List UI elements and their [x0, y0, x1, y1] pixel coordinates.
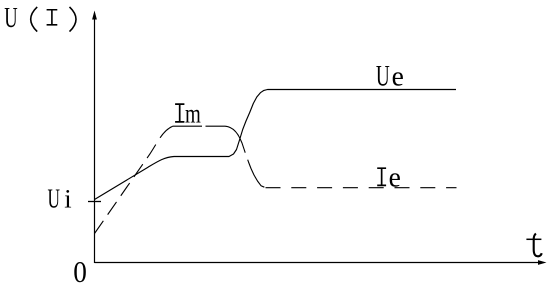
svg-text:U: U	[376, 60, 390, 92]
svg-text:e: e	[389, 162, 401, 194]
label U(I) : (	[31, 7, 38, 32]
label Im : I	[175, 104, 184, 122]
svg-text:m: m	[185, 99, 201, 130]
label U(I) : )	[70, 7, 77, 32]
y-axis arrowhead	[92, 11, 97, 20]
label t	[534, 234, 542, 257]
x-axis	[95, 262, 541, 264]
dashed curve I : rising part	[95, 126, 173, 233]
y-axis	[94, 17, 96, 263]
dashed curve I : Im plateau and falling part	[173, 126, 266, 188]
dashed curve I : Ie plateau	[266, 187, 457, 189]
svg-text:U: U	[4, 3, 17, 34]
svg-text:e: e	[392, 61, 404, 93]
label Ie : I	[377, 168, 386, 185]
solid curve U	[95, 90, 457, 200]
tick Ui on y-axis	[88, 201, 101, 203]
x-axis arrowhead	[538, 260, 547, 265]
label U(I) : I	[47, 10, 58, 25]
svg-text:0: 0	[73, 255, 87, 283]
svg-text:U: U	[48, 184, 60, 214]
svg-text:i: i	[64, 183, 71, 213]
